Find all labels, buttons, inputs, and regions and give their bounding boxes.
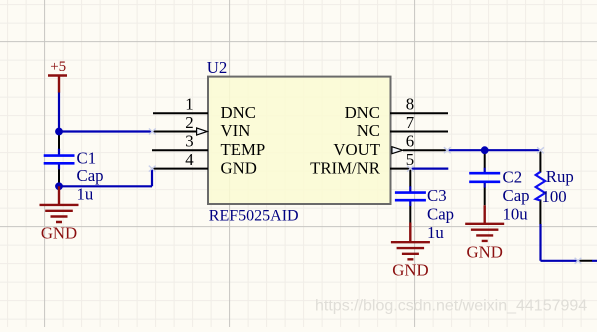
svg-text:6: 6 xyxy=(406,132,414,151)
svg-text:VOUT: VOUT xyxy=(333,140,380,159)
svg-text:Cap: Cap xyxy=(77,166,104,185)
svg-text:3: 3 xyxy=(185,132,193,151)
svg-text:C1: C1 xyxy=(77,148,97,167)
svg-text:GND: GND xyxy=(392,261,428,280)
svg-text:4: 4 xyxy=(185,150,194,169)
svg-text:+5: +5 xyxy=(50,59,66,75)
svg-text:U2: U2 xyxy=(207,58,228,77)
svg-text:https://blog.csdn.net/weixin_4: https://blog.csdn.net/weixin_44157994 xyxy=(315,298,587,315)
svg-text:100: 100 xyxy=(542,187,567,206)
svg-text:DNC: DNC xyxy=(221,103,256,122)
svg-text:1u: 1u xyxy=(77,184,94,203)
svg-text:7: 7 xyxy=(406,113,414,132)
svg-text:2: 2 xyxy=(185,113,193,132)
svg-text:GND: GND xyxy=(467,243,503,262)
svg-text:GND: GND xyxy=(221,158,257,177)
svg-text:1u: 1u xyxy=(427,223,444,242)
svg-text:Rup: Rup xyxy=(546,167,574,186)
svg-text:Cap: Cap xyxy=(503,186,530,205)
svg-text:8: 8 xyxy=(406,95,414,114)
svg-text:Cap: Cap xyxy=(427,205,454,224)
svg-text:5: 5 xyxy=(406,150,414,169)
svg-text:TRIM/NR: TRIM/NR xyxy=(310,158,381,177)
svg-text:REF5025AID: REF5025AID xyxy=(209,207,299,224)
svg-text:1: 1 xyxy=(185,95,193,114)
svg-text:TEMP: TEMP xyxy=(221,140,266,159)
svg-text:VIN: VIN xyxy=(221,121,251,140)
svg-text:NC: NC xyxy=(357,121,380,140)
svg-text:10u: 10u xyxy=(503,205,529,224)
svg-text:C2: C2 xyxy=(503,168,523,187)
svg-text:C3: C3 xyxy=(427,186,447,205)
svg-text:GND: GND xyxy=(41,224,77,243)
svg-text:DNC: DNC xyxy=(345,103,380,122)
